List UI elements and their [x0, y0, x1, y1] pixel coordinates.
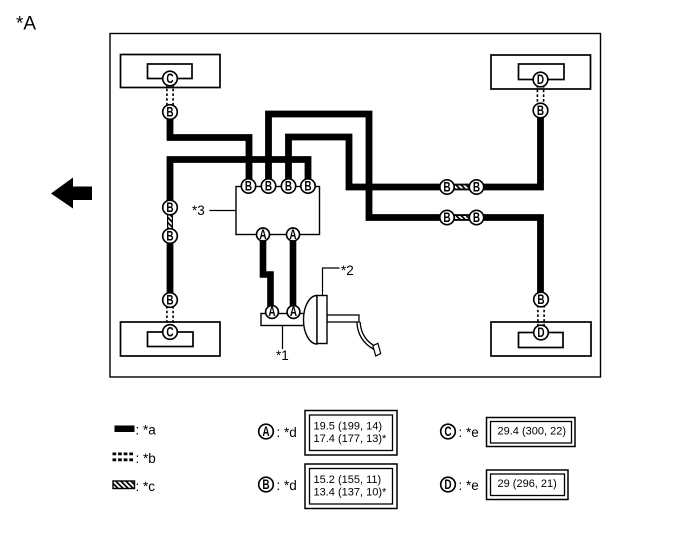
legend C value box [487, 418, 576, 447]
top-right wheel cylinder [519, 64, 565, 80]
front-left wheel cylinder [148, 64, 193, 79]
svg-text:: *d: : *d [277, 478, 297, 493]
circle B top-right [533, 103, 548, 118]
svg-text:29.4 (300, 22): 29.4 (300, 22) [498, 426, 567, 438]
coupler circle B right on front-right run [469, 180, 483, 195]
hatched coupler on rear-right run [452, 215, 472, 220]
svg-text:B: B [443, 180, 450, 195]
frame border [110, 34, 601, 378]
svg-text:*2: *2 [341, 263, 354, 278]
svg-text:: *d: : *d [277, 425, 297, 440]
circle B3 on actuator [281, 179, 295, 194]
svg-text:B: B [166, 293, 173, 308]
circle B4 on actuator [301, 179, 315, 194]
legend solid line sample *a [115, 426, 135, 433]
legend circle C [441, 424, 456, 439]
svg-text:19.5 (199, 14): 19.5 (199, 14) [314, 420, 383, 432]
svg-text:B: B [265, 179, 272, 194]
svg-text:*A: *A [16, 14, 36, 35]
pedal pad [373, 343, 381, 356]
direction arrow [51, 178, 92, 209]
bottom-right wheel body [491, 322, 591, 356]
label *3 leader [210, 210, 237, 212]
svg-text:: *a: : *a [136, 423, 157, 438]
circle B1 on actuator [241, 179, 255, 194]
svg-text:B: B [166, 105, 173, 120]
svg-text:C: C [166, 71, 173, 86]
top-right wheel body [491, 55, 591, 89]
bottom-right flexible hose (dashed) [538, 305, 544, 327]
svg-text:A: A [289, 227, 296, 242]
master cylinder bracket *1 [261, 314, 306, 326]
svg-text:A: A [290, 304, 297, 319]
svg-text:*3: *3 [192, 203, 205, 218]
svg-text:: *e: : *e [459, 478, 479, 493]
circle D top-right [533, 72, 548, 87]
legend circle D [441, 477, 456, 492]
bottom-left flexible hose (dashed) [167, 306, 173, 327]
circle B left line lower [163, 229, 178, 244]
svg-text:D: D [537, 72, 544, 87]
svg-text:A: A [262, 424, 269, 439]
svg-text:B: B [473, 180, 480, 195]
circle A right on actuator [287, 227, 300, 242]
hatched coupler on left vertical line [167, 214, 173, 229]
svg-text:B: B [262, 477, 269, 492]
svg-text:B: B [537, 292, 544, 307]
svg-text:B: B [285, 179, 292, 194]
legend hatched sample *c [113, 481, 135, 489]
svg-text:*1: *1 [276, 348, 289, 363]
svg-text:B: B [245, 179, 252, 194]
circle B front-left [163, 105, 178, 120]
legend A value box [305, 411, 397, 456]
front-left wheel body [121, 55, 221, 88]
svg-text:B: B [166, 200, 173, 215]
wire: front-right brake line (B3 up, over to right, to top-right wheel) [289, 117, 541, 187]
circle A left on actuator [257, 227, 270, 242]
bottom-left wheel cylinder [148, 332, 194, 347]
svg-text:D: D [444, 477, 451, 492]
front-left flexible hose (dashed) [167, 84, 173, 106]
svg-text:15.2 (155, 11): 15.2 (155, 11) [314, 474, 382, 486]
hatched coupler on front-right run [452, 184, 472, 189]
label *2 leader [323, 268, 340, 296]
bottom-left wheel body [121, 322, 221, 356]
coupler circle B right on rear-right run [469, 210, 483, 225]
svg-text:29 (296, 21): 29 (296, 21) [498, 478, 557, 490]
circle B bottom-right [534, 292, 549, 307]
svg-text:B: B [443, 210, 450, 225]
legend D value box [487, 470, 569, 500]
svg-text:C: C [444, 424, 451, 439]
svg-text:A: A [268, 304, 275, 319]
svg-text:: *e: : *e [459, 425, 479, 440]
wire: rear-right brake line (B2 up, over to right, down to bottom-right wheel) [269, 114, 541, 293]
legend B value box [305, 464, 397, 509]
coupler circle B left on rear-right run [440, 210, 454, 225]
svg-text:B: B [304, 179, 311, 194]
svg-text:B: B [537, 103, 544, 118]
svg-text:: *c: : *c [136, 479, 156, 494]
coupler circle B left on front-right run [440, 180, 454, 195]
wire: left line lower segment [167, 242, 174, 294]
svg-text:C: C [166, 325, 173, 340]
legend circle B [259, 477, 274, 492]
svg-text:: *b: : *b [136, 451, 156, 466]
booster push rod [327, 315, 359, 322]
circle B bottom-left [163, 293, 178, 308]
legend dashed line sample *b [113, 454, 135, 460]
wire: master cylinder secondary line (right, straight) [290, 240, 297, 307]
brake actuator box *3 [236, 187, 320, 235]
circle C front-left [163, 71, 178, 86]
svg-text:D: D [537, 325, 544, 340]
label *1 leader [282, 326, 284, 350]
circle D bottom-right [534, 325, 549, 340]
svg-text:13.4 (137, 10)*: 13.4 (137, 10)* [314, 486, 387, 498]
top-right flexible hose (dashed) [537, 85, 543, 105]
circle A on master cylinder right [287, 304, 300, 319]
legend circle A [259, 424, 274, 439]
bottom-right wheel cylinder [519, 333, 564, 348]
brake pedal arm [359, 322, 375, 348]
circle B left line upper [163, 200, 178, 215]
brake booster dome *2 [303, 296, 317, 345]
wire: rear-left brake line (junction B4 to left side down) [170, 160, 308, 203]
svg-text:B: B [166, 229, 173, 244]
svg-text:A: A [259, 227, 266, 242]
circle B2 on actuator [261, 179, 275, 194]
svg-text:B: B [473, 210, 480, 225]
circle A on master cylinder left [266, 304, 279, 319]
wire: master cylinder primary line (left, with jog) [263, 240, 271, 307]
svg-text:17.4 (177, 13)*: 17.4 (177, 13)* [314, 433, 387, 445]
wire: front-left brake line (B top-left to junction B1) [170, 118, 249, 180]
circle C bottom-left [163, 325, 178, 340]
brake booster band [317, 296, 327, 344]
